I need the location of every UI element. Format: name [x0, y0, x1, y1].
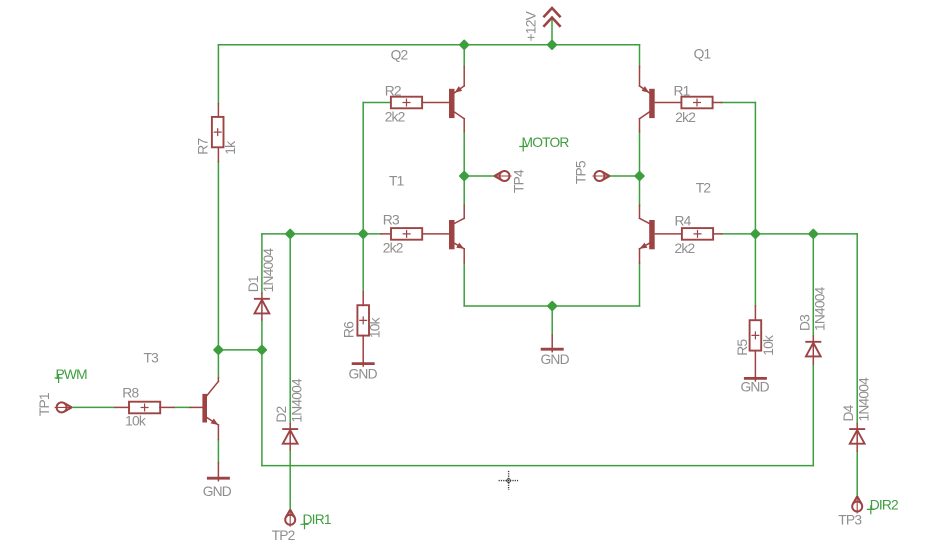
- svg-text:R5: R5: [735, 339, 750, 356]
- node sheet origin cross: [499, 471, 518, 490]
- label D3 name: [797, 314, 812, 331]
- label R3 name: [383, 212, 400, 227]
- net label DIR1: [303, 512, 331, 527]
- diode D2: [282, 424, 298, 450]
- ground GND mid: [541, 335, 564, 352]
- wire R2 left: [363, 103, 391, 234]
- wire D4 column upper: [856, 234, 858, 424]
- ground GND R5: [744, 377, 767, 381]
- resistor R4: [682, 228, 713, 240]
- label T2: [696, 181, 711, 196]
- pin R2 right lead: [422, 102, 449, 104]
- svg-text:TP1: TP1: [37, 393, 52, 416]
- wire R7 bottom to T3 collector node: [217, 162, 219, 350]
- wire Q1 emitter to rail: [639, 45, 641, 67]
- svg-text:2k2: 2k2: [675, 241, 695, 256]
- wire D1 column lower / bottom rail: [262, 320, 813, 466]
- label TP4: [512, 169, 527, 193]
- label R8 name: [122, 385, 139, 400]
- diode D1: [254, 293, 270, 320]
- label TP1: [37, 393, 52, 416]
- wire R7 top: [217, 45, 219, 104]
- svg-text:10k: 10k: [125, 414, 146, 429]
- node DIR2 label origin: [867, 505, 875, 514]
- wire base row left: [262, 233, 381, 235]
- test point TP3: [852, 496, 862, 513]
- resistor R5: [750, 320, 762, 350]
- svg-text:D2: D2: [274, 406, 289, 422]
- node DIR1 label origin: [301, 520, 309, 529]
- wire TP4 node to T1 collector: [463, 176, 465, 205]
- transistor T2: [640, 205, 655, 263]
- pin R3 leads: [381, 233, 449, 235]
- junction node J4: [635, 172, 643, 180]
- svg-text:TP2: TP2: [272, 528, 295, 543]
- test point TP2: [285, 510, 295, 527]
- svg-text:T1: T1: [389, 174, 404, 189]
- label TP3: [838, 513, 862, 528]
- junction node J1: [460, 41, 468, 49]
- svg-text:10k: 10k: [761, 335, 776, 356]
- value D2: [290, 378, 305, 423]
- svg-text:1N4004: 1N4004: [813, 286, 828, 331]
- value R2: [385, 110, 405, 125]
- svg-text:D3: D3: [797, 314, 812, 331]
- label GND T3: [203, 484, 232, 499]
- svg-text:D1: D1: [246, 276, 261, 292]
- wire R1 right: [722, 103, 756, 234]
- pin R1 leads: [655, 102, 721, 104]
- node MOTOR label origin: [519, 143, 527, 152]
- value R3: [383, 240, 403, 255]
- resistor R2: [391, 97, 422, 109]
- test point TP4: [494, 171, 511, 181]
- label Q1: [694, 47, 711, 62]
- label T3: [144, 350, 160, 365]
- svg-text:PWM: PWM: [56, 367, 88, 382]
- svg-text:D4: D4: [841, 404, 856, 421]
- junction node J8: [809, 230, 817, 238]
- transistor T3: [202, 378, 218, 440]
- label GND R6: [349, 367, 378, 382]
- label GND R5: [741, 380, 770, 395]
- resistor R1: [681, 97, 712, 109]
- label R2 name: [385, 83, 401, 98]
- junction node J11: [548, 302, 556, 310]
- svg-text:2k2: 2k2: [383, 240, 403, 255]
- wire R8 to T3 base: [174, 406, 190, 408]
- transistor T1: [449, 205, 464, 263]
- label T1: [389, 174, 404, 189]
- svg-text:DIR1: DIR1: [303, 512, 331, 527]
- net label MOTOR: [522, 135, 570, 150]
- junction node J5: [286, 230, 294, 238]
- label D4 name: [841, 404, 856, 421]
- svg-text:TP5: TP5: [574, 160, 589, 184]
- label TP5: [574, 160, 589, 184]
- value R1: [675, 110, 695, 125]
- pin R6 leads: [362, 292, 364, 362]
- resistor R8: [129, 402, 160, 414]
- ground GND T3: [207, 463, 230, 481]
- wire TP5 stub: [610, 175, 640, 177]
- value R7: [223, 141, 238, 155]
- wire D3 column upper: [812, 234, 814, 336]
- label D1 name: [246, 276, 261, 292]
- resistor R3: [391, 228, 422, 240]
- pin R4 leads: [655, 233, 721, 235]
- value R6: [368, 317, 383, 338]
- net label DIR2: [870, 498, 898, 513]
- wire +12V stub: [551, 18, 553, 45]
- svg-text:R3: R3: [383, 212, 400, 227]
- wire R6 top: [362, 234, 364, 292]
- wire D2 to TP2: [289, 450, 291, 510]
- net label PWM: [56, 367, 88, 382]
- svg-text:GND: GND: [541, 352, 570, 367]
- wire R5 top: [754, 234, 756, 306]
- junction node J3: [460, 172, 468, 180]
- svg-text:R6: R6: [342, 321, 357, 338]
- value D3: [813, 286, 828, 331]
- junction node J7: [751, 230, 759, 238]
- supply +12V symbol: [543, 8, 560, 27]
- label TP2: [272, 528, 295, 543]
- svg-text:R2: R2: [385, 83, 401, 98]
- svg-text:GND: GND: [349, 367, 378, 382]
- junction node J10: [258, 346, 266, 354]
- svg-text:1N4004: 1N4004: [857, 377, 872, 422]
- value D1: [261, 248, 276, 293]
- resistor R6: [357, 305, 369, 335]
- svg-text:Q1: Q1: [694, 47, 711, 62]
- diode D3: [805, 336, 821, 364]
- svg-text:T2: T2: [696, 181, 711, 196]
- wire Q1 collector to TP5 node: [639, 132, 641, 177]
- wire mid GND stub: [551, 306, 553, 335]
- wire TP1 to R8: [72, 406, 116, 408]
- transistor Q1: [640, 67, 655, 132]
- ground GND R6: [352, 362, 375, 366]
- svg-text:2k2: 2k2: [675, 110, 695, 125]
- svg-text:2k2: 2k2: [385, 110, 405, 125]
- test point TP1: [55, 402, 72, 412]
- pin R8 leads: [115, 406, 202, 408]
- wire TP5 node to T2 collector: [639, 176, 641, 205]
- test point TP5: [593, 171, 610, 181]
- wire D4 to TP3: [856, 451, 858, 496]
- node PWM label origin: [55, 374, 63, 383]
- label GND mid: [541, 352, 570, 367]
- svg-text:R4: R4: [675, 213, 692, 228]
- svg-text:1k: 1k: [223, 141, 238, 155]
- wire top +12V rail: [218, 44, 639, 46]
- svg-text:10k: 10k: [368, 317, 383, 338]
- wire node T3C to D1 column: [218, 349, 262, 351]
- diode D4: [849, 424, 865, 452]
- junction node J2: [548, 41, 556, 49]
- pin R7 leads: [217, 104, 219, 162]
- svg-text:R8: R8: [122, 385, 139, 400]
- label R7 name: [196, 139, 211, 155]
- junction node J9: [214, 346, 222, 354]
- svg-text:R1: R1: [674, 83, 690, 98]
- resistor R7: [212, 117, 224, 147]
- wire motor bottom rail: [464, 305, 639, 307]
- value R5: [761, 335, 776, 356]
- svg-text:GND: GND: [203, 484, 232, 499]
- value R4: [675, 241, 695, 256]
- wire TP4 stub: [464, 175, 494, 177]
- label R1 name: [674, 83, 690, 98]
- wire D1 column upper: [261, 234, 263, 293]
- svg-text:+12V: +12V: [524, 10, 539, 41]
- svg-text:Q2: Q2: [391, 48, 408, 63]
- wire T3 collector stub: [217, 350, 219, 378]
- wire T1 emitter down: [463, 263, 465, 306]
- label Q2: [391, 48, 408, 63]
- svg-text:TP3: TP3: [838, 513, 862, 528]
- svg-text:1N4004: 1N4004: [290, 378, 305, 423]
- svg-text:1N4004: 1N4004: [261, 248, 276, 293]
- svg-text:MOTOR: MOTOR: [522, 135, 570, 150]
- svg-text:TP4: TP4: [512, 169, 527, 193]
- svg-text:R7: R7: [196, 139, 211, 155]
- wire T2 emitter down: [639, 263, 641, 306]
- label D2 name: [274, 406, 289, 422]
- wire T3 emitter: [217, 440, 219, 463]
- wire D2 column upper: [289, 234, 291, 424]
- value D4: [857, 377, 872, 422]
- wire Q2 emitter to rail: [463, 45, 465, 67]
- wire Q2 collector to TP4 node: [463, 132, 465, 177]
- svg-text:DIR2: DIR2: [870, 498, 898, 513]
- svg-text:GND: GND: [741, 380, 770, 395]
- transistor Q2: [449, 67, 464, 132]
- label R5 name: [735, 339, 750, 356]
- label +12V: [524, 10, 539, 41]
- svg-text:T3: T3: [144, 350, 160, 365]
- junction node J6: [359, 230, 367, 238]
- pin R5 leads: [754, 306, 756, 377]
- value R8: [125, 414, 146, 429]
- wire base row right: [722, 233, 857, 235]
- label R6 name: [342, 321, 357, 338]
- label R4 name: [675, 213, 692, 228]
